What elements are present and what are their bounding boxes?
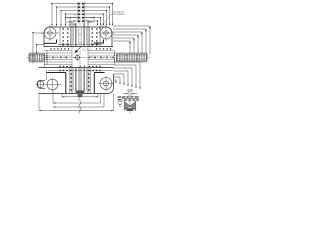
block inner verticals (60, 27, 100, 94)
centerline horizontal (27, 57, 151, 59)
center mark (74, 54, 82, 62)
detail nut (127, 108, 134, 111)
body outline (39, 27, 114, 94)
bottom leader y107 (53, 94, 104, 108)
right threaded rod (117, 54, 148, 61)
slot floor leader arrows (79, 65, 85, 67)
top arm slot (72, 21, 88, 47)
bottom leader y103 (53, 91, 101, 104)
bottom block thick section walls (66, 73, 95, 94)
bottom-right flange circle (98, 76, 115, 92)
break wavy line (79, 97, 81, 113)
bottom arm slot (72, 66, 88, 98)
flange bolt rows below centre (59, 66, 100, 71)
detail lower plate band (122, 99, 139, 101)
bottom dimension y97 (62, 94, 98, 99)
top-right leader staircase (84, 4, 113, 26)
stack width dimension (66, 15, 95, 23)
misc dark dashes near center (62, 43, 98, 44)
detail hatched wedges (124, 101, 130, 110)
top stud stack (78, 2, 84, 23)
flange bolt row above centre (50, 48, 111, 49)
detail centerline (129, 89, 131, 114)
detail top dimension (127, 91, 129, 96)
bolt hole dots bottom blocks (70, 73, 90, 90)
left threaded rod (29, 54, 45, 61)
detail upper plate band (122, 96, 139, 98)
top-left leader staircase (52, 4, 78, 26)
left leader staircase (32, 32, 44, 64)
label 16-M20 (99, 11, 125, 29)
mid arm lines (29, 47, 147, 68)
mid row bolt dots (46, 57, 113, 58)
bottom-left boss circles (36, 78, 62, 92)
right staircase lower (114, 62, 141, 89)
body inner edge lines (45, 45, 113, 81)
rod height dimension arrows (114, 50, 115, 65)
small vertical dimension x47 (46, 50, 47, 65)
detail view bolted joint (118, 89, 139, 114)
right staircase upper (113, 26, 150, 54)
svg-text:16-M20: 16-M20 (112, 11, 125, 15)
bolt hole dots top blocks (63, 28, 98, 45)
top-right flange circle (98, 25, 115, 41)
centerline vertical (79, 23, 81, 98)
top-left flange circle (42, 25, 60, 41)
slot width dimension (66, 21, 95, 23)
svg-text:A (1:1): A (1:1) (83, 48, 92, 52)
bottom dimension y110.5 (39, 94, 114, 112)
detail left bars (118, 96, 122, 97)
section flag A (74, 46, 92, 54)
thick section ledges (44, 40, 105, 73)
